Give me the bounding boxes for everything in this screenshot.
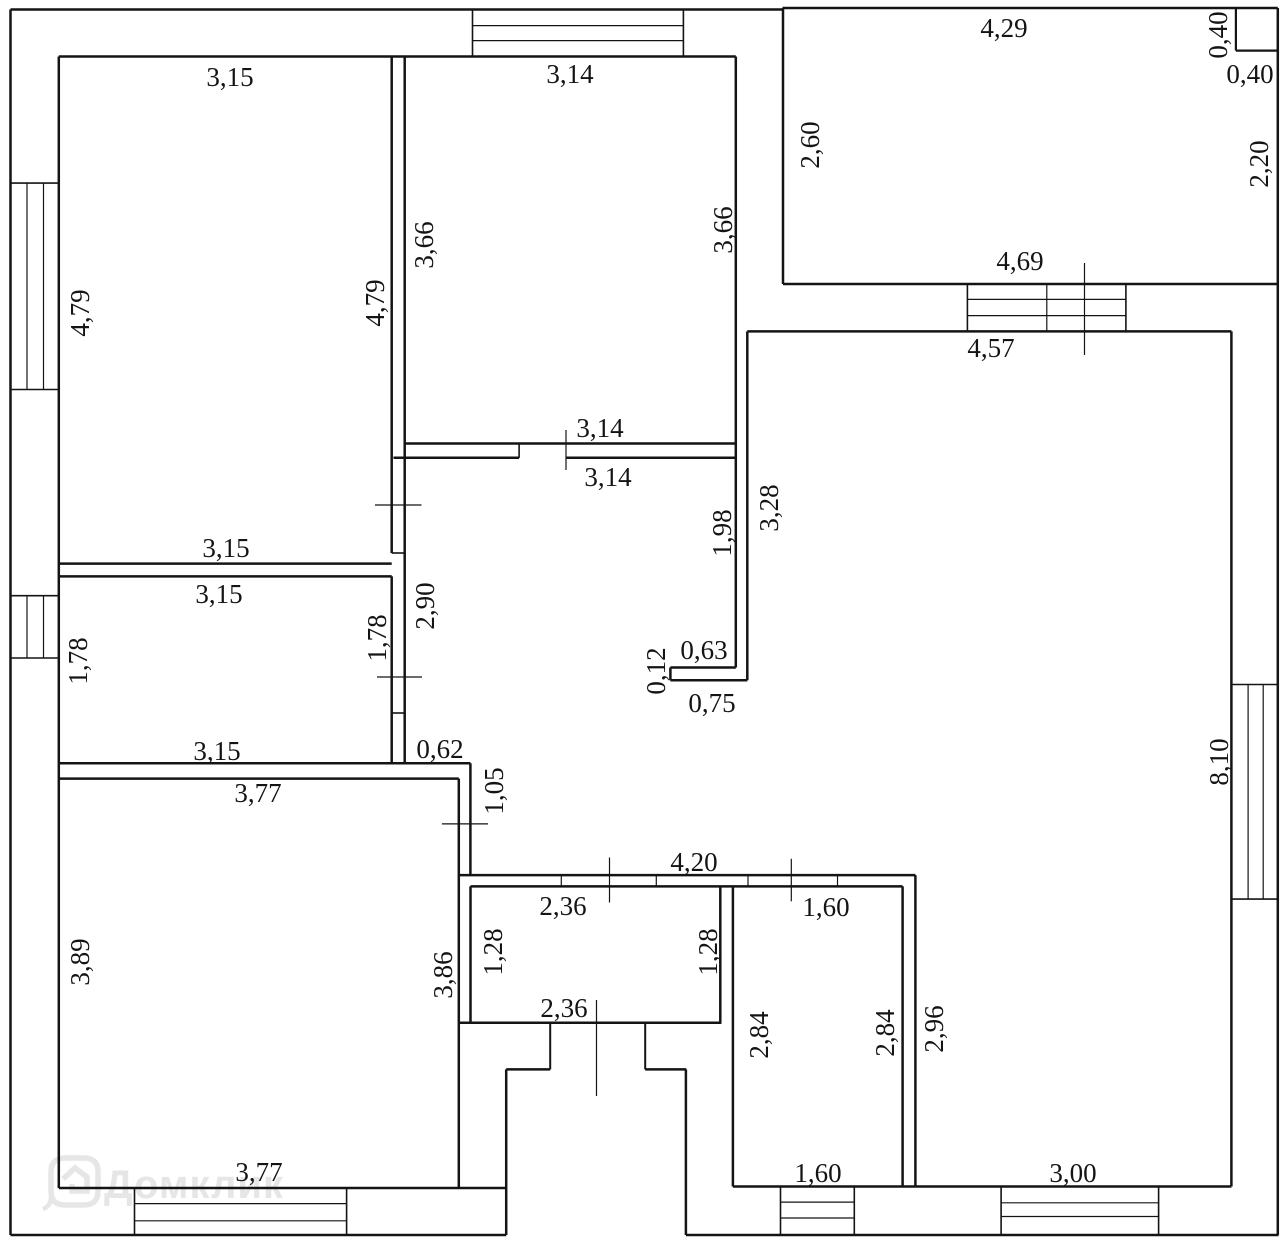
wire window W2 bottom cap <box>11 657 59 659</box>
svg-text:2,60: 2,60 <box>795 121 825 168</box>
svg-text:4,79: 4,79 <box>65 289 95 336</box>
wire window W1 top cap <box>11 182 59 184</box>
svg-text:3,14: 3,14 <box>584 462 632 492</box>
wire window W1 bottom cap <box>11 389 59 391</box>
node hall long tick left <box>609 858 611 903</box>
wire window W2 line2 <box>43 596 45 658</box>
svg-text:3,86: 3,86 <box>428 951 458 998</box>
node door tick y505 <box>375 504 422 506</box>
wire window W5 line1 <box>1247 685 1249 900</box>
node dim tick vestibule <box>596 1000 598 1096</box>
wire outer top-left <box>11 8 783 11</box>
wire step 0-63 <box>670 666 735 669</box>
wire vestibule left wall <box>505 1069 508 1235</box>
wire left wall inner edge <box>58 57 61 1189</box>
wire outer left <box>9 10 12 1236</box>
wire window W1 line1 <box>26 183 28 389</box>
node dim tick x566 <box>565 430 567 470</box>
wire window W6 right edge <box>1158 1187 1160 1236</box>
wire step 0-75 <box>670 679 747 682</box>
wire vestibule top left <box>506 1068 550 1071</box>
wire window W7 line2 <box>135 1220 347 1222</box>
wire room3 top wall right part <box>566 457 736 460</box>
wire room160 left wall <box>732 886 735 1186</box>
wire window W4 line2 <box>967 315 1126 317</box>
svg-text:2,90: 2,90 <box>410 582 440 629</box>
svg-text:3,14: 3,14 <box>576 413 624 443</box>
svg-text:4,69: 4,69 <box>996 246 1043 276</box>
wire window W7 line1 <box>135 1203 347 1205</box>
wire room2 bottom wall top line <box>405 442 736 445</box>
wire garage left wall <box>782 8 785 284</box>
svg-text:3,00: 3,00 <box>1049 1158 1096 1188</box>
watermark Domklik logo <box>43 1158 98 1209</box>
wire living right wall <box>1230 331 1233 1186</box>
wire window W5 line2 <box>1262 685 1264 900</box>
svg-text:3,15: 3,15 <box>195 579 242 609</box>
svg-text:3,77: 3,77 <box>234 778 281 808</box>
node hall tick c <box>747 875 749 886</box>
svg-text:0,63: 0,63 <box>680 635 727 665</box>
node dim tick 1-05 <box>442 823 488 825</box>
svg-text:4,57: 4,57 <box>967 333 1014 363</box>
wire hall wall top line <box>459 874 916 877</box>
wire living left wall <box>746 331 749 680</box>
svg-text:0,62: 0,62 <box>416 734 463 764</box>
wire window W3 line1 <box>473 25 684 27</box>
wire window W5 bottom cap <box>1231 898 1277 900</box>
wire hall wall bottom line <box>471 885 903 888</box>
wire window W1 line2 <box>43 183 45 389</box>
svg-text:3,66: 3,66 <box>708 206 738 253</box>
svg-text:1,78: 1,78 <box>362 614 392 661</box>
wire garage bottom wall <box>783 283 1278 286</box>
svg-text:2,36: 2,36 <box>539 891 586 921</box>
svg-text:2,36: 2,36 <box>540 993 587 1023</box>
wire room 1-78 top wall <box>59 575 392 578</box>
wire living top wall 4-57 <box>747 330 1231 333</box>
wire step 0-12 <box>669 668 672 681</box>
wire bathroom right wall <box>719 886 722 1022</box>
wire window W8 left edge <box>780 1187 782 1236</box>
wire bigroom bottom wall <box>59 1187 506 1190</box>
svg-text:1,60: 1,60 <box>794 1158 841 1188</box>
wire wall cap y713 <box>392 712 405 714</box>
wire square 0-40 bottom <box>1236 49 1278 51</box>
svg-text:3,15: 3,15 <box>206 62 253 92</box>
wire window W4 line1 <box>967 298 1126 300</box>
svg-text:3,66: 3,66 <box>409 221 439 268</box>
node door tick y677 <box>377 676 422 678</box>
wire room160 right wall outer <box>914 875 917 1186</box>
wire bigroom top wall <box>59 777 459 780</box>
wire window W6 left edge <box>1000 1187 1002 1236</box>
svg-text:0,12: 0,12 <box>641 647 671 694</box>
wire window W2 line1 <box>26 596 28 658</box>
wire wall cap y553 <box>392 552 405 554</box>
wire window W8 right edge <box>853 1187 855 1236</box>
wire window W6 line2 <box>1001 1216 1159 1218</box>
wire vestibule top right <box>645 1068 686 1071</box>
svg-text:1,28: 1,28 <box>693 928 723 975</box>
wire door closer x519 <box>518 444 520 458</box>
svg-text:1,98: 1,98 <box>707 509 737 556</box>
svg-text:1,28: 1,28 <box>478 928 508 975</box>
wire window W8 line2 <box>781 1217 855 1219</box>
svg-text:1,60: 1,60 <box>802 892 849 922</box>
wire window W4 left edge <box>966 284 968 331</box>
wire tambour left wall <box>549 1023 551 1070</box>
svg-text:2,84: 2,84 <box>870 1009 900 1057</box>
node hall tick d <box>837 875 839 886</box>
svg-text:8,10: 8,10 <box>1204 738 1234 785</box>
wire window W2 top cap <box>11 595 59 597</box>
svg-text:3,28: 3,28 <box>754 484 784 531</box>
svg-text:3,89: 3,89 <box>65 938 95 985</box>
wire window W3 left edge <box>472 10 474 57</box>
wire tambour right wall <box>644 1023 646 1070</box>
svg-text:4,79: 4,79 <box>360 279 390 326</box>
wire wall room1-room2 left line <box>390 57 393 554</box>
wire room3 top wall left part <box>394 457 520 460</box>
node hall long tick right <box>790 859 792 902</box>
wire outer bottom right <box>686 1234 1279 1237</box>
svg-text:0,40: 0,40 <box>1226 59 1273 89</box>
wire window W6 line1 <box>1001 1202 1159 1204</box>
wire window W4 right edge <box>1125 284 1127 331</box>
svg-text:3,15: 3,15 <box>193 736 240 766</box>
wire square 0-40 left <box>1235 8 1237 51</box>
wire top wall inner edge <box>59 55 736 58</box>
wire wall room1-room2 right line <box>403 57 406 764</box>
node hall tick a <box>560 875 562 886</box>
svg-text:0,75: 0,75 <box>688 688 735 718</box>
wire window W4 divider <box>1046 284 1048 331</box>
wire room160 bottom wall <box>733 1185 916 1188</box>
wire window W7 right edge <box>346 1188 348 1235</box>
wire room 1-78 right wall <box>390 576 393 763</box>
node hall tick b <box>655 875 657 886</box>
wire outer top-right <box>783 7 1278 10</box>
wire outer right <box>1277 8 1280 1235</box>
wire bathroom bottom wall <box>459 1021 722 1024</box>
svg-text:3,77: 3,77 <box>235 1157 282 1187</box>
wire outer bottom left <box>11 1234 507 1237</box>
svg-text:4,29: 4,29 <box>980 13 1027 43</box>
wire window W7 left edge <box>134 1188 136 1235</box>
svg-text:1,78: 1,78 <box>63 637 93 684</box>
svg-text:0,40: 0,40 <box>1203 11 1233 58</box>
wire living bottom wall <box>915 1185 1231 1188</box>
svg-text:2,20: 2,20 <box>1244 140 1274 187</box>
wire room 1-78 bottom wall <box>59 762 471 765</box>
svg-text:4,20: 4,20 <box>670 847 717 877</box>
wire room2 right wall <box>735 57 738 668</box>
wire window W3 line2 <box>473 40 684 42</box>
wire room1 bottom wall <box>59 562 392 565</box>
svg-text:1,05: 1,05 <box>479 767 509 814</box>
svg-text:3,15: 3,15 <box>202 533 249 563</box>
svg-text:2,96: 2,96 <box>919 1005 949 1052</box>
wire bathroom left wall <box>469 886 472 1022</box>
node dim tick 4-69 <box>1084 263 1086 355</box>
wire window W8 line1 <box>781 1201 855 1203</box>
wire window W3 right edge <box>682 10 684 57</box>
wire room160 right wall inner <box>901 886 904 1186</box>
svg-text:3,14: 3,14 <box>546 59 594 89</box>
wire window W5 top cap <box>1231 684 1277 686</box>
svg-text:2,84: 2,84 <box>744 1011 774 1059</box>
wire vestibule right wall <box>685 1069 688 1235</box>
wire bigroom right wall <box>458 779 461 1188</box>
wire step wall x470 <box>469 763 472 875</box>
